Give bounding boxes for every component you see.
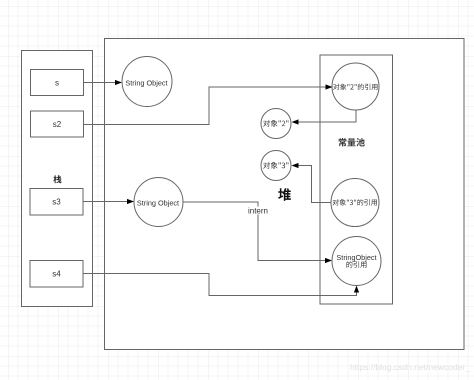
wire s to String Object [84,82,116,84]
wire intern: String Object to StringObject reference [183,202,326,261]
wire ref of object 3 to object 3 [298,166,332,203]
svg-text:String Object: String Object [125,79,167,88]
text ref of object 3 [333,199,377,206]
stack container box (zhan) [22,51,93,307]
text de yin yong (reference) [346,261,366,268]
svg-text:s: s [55,78,59,87]
heap container box [105,39,465,350]
circle object "2" [261,109,291,139]
label changliangchi (constant pool) [339,138,365,146]
wire s2 to ref of object 2 [84,87,327,125]
circle String Object (lower) [134,178,183,227]
text object 3 [263,162,288,169]
circle StringObject reference [332,237,381,286]
circle object "3" [261,151,291,181]
svg-text:s3: s3 [52,198,61,207]
circle reference of object "2" [332,63,379,110]
box s [31,70,84,96]
text ref of object 2 [333,84,377,91]
svg-text:https://blog.csdn.net/newcoder: https://blog.csdn.net/newcoder_ [350,362,470,372]
label dui (heap) [278,188,291,201]
box s3 [30,189,83,216]
svg-text:s2: s2 [53,120,62,129]
circle reference of object "3" [331,179,379,227]
box s2 [31,111,84,137]
box s4 [30,261,83,288]
constant pool box [320,55,393,304]
svg-text:StringObject: StringObject [336,253,376,262]
text object 2 [263,120,288,127]
wire ref of object 2 to object 2 [298,110,357,122]
label intern [247,207,269,215]
wire s4 to StringObject reference [83,274,357,296]
circle String Object (top) [122,57,172,107]
label zhan (stack) [53,175,61,183]
svg-text:intern: intern [248,206,268,215]
wire s3 to String Object (lower) [83,201,128,203]
svg-text:s4: s4 [52,270,61,279]
svg-text:String Object: String Object [137,199,179,208]
